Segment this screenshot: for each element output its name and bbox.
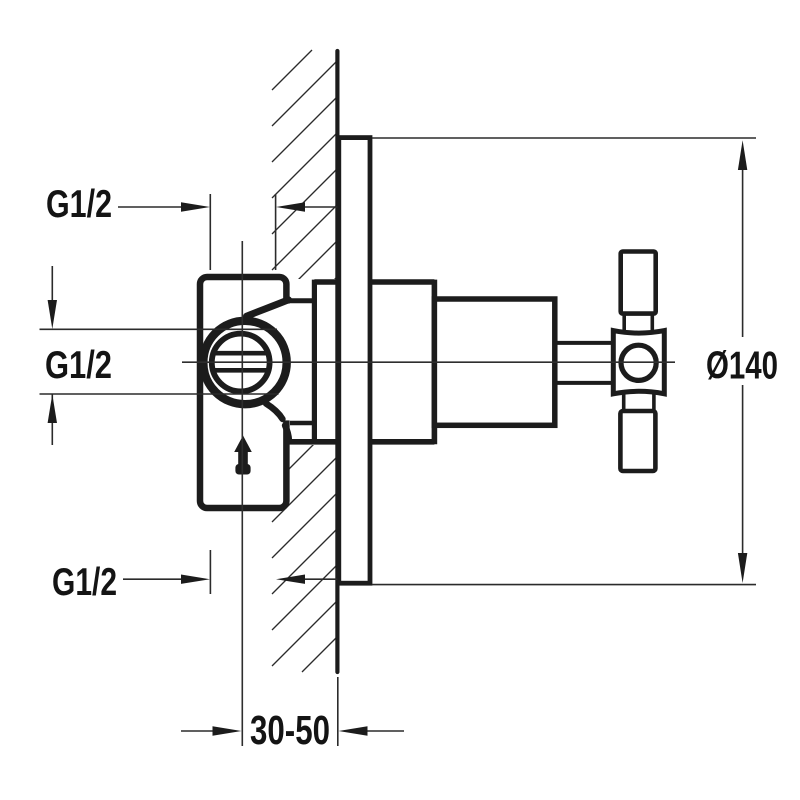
eraser of body right edge where neck opens [282, 304, 292, 421]
flow arrow [234, 436, 252, 475]
flange plate [339, 138, 370, 584]
valve stem [554, 341, 614, 345]
dimension: top G1/2 [118, 194, 337, 270]
svg-text:G1/2: G1/2 [46, 183, 112, 226]
wall face line [335, 51, 339, 672]
handle top neck [622, 314, 626, 332]
port boss outer ring [203, 321, 286, 404]
svg-text:G1/2: G1/2 [52, 561, 117, 604]
tangent curve top [247, 300, 289, 316]
dimension: bottom G1/2 [123, 550, 337, 594]
dimension: Ø140 [372, 138, 756, 585]
tangent curve bottom (broken) [266, 404, 283, 420]
valve neck through wall [314, 279, 434, 285]
handle hub circle [621, 345, 656, 380]
port inner circle [212, 334, 270, 392]
valve neck white underlay (clears hatch behind neck/step) [288, 279, 437, 445]
svg-text:30-50: 30-50 [250, 707, 330, 753]
handle bottom neck [622, 394, 626, 412]
handle top bar [621, 252, 656, 314]
dimension: 30-50 [181, 677, 404, 746]
inner step lines (port throat) [289, 298, 316, 303]
svg-text:Ø140: Ø140 [706, 345, 778, 388]
svg-text:G1/2: G1/2 [45, 344, 112, 387]
thread bars [215, 351, 270, 356]
handle hub [613, 331, 664, 394]
valve body [200, 277, 286, 508]
centerline vertical [241, 241, 243, 746]
handle bottom bar [620, 411, 655, 471]
step sleeve right edge [432, 280, 438, 445]
wall hatching [272, 50, 337, 672]
dimension: middle G1/2 (vertical) [40, 266, 279, 445]
centerline horizontal [182, 361, 675, 363]
cartridge housing [434, 299, 554, 425]
